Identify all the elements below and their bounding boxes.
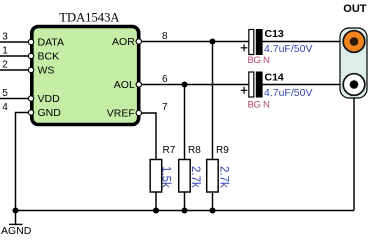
wire AOL to C14: [141, 84, 249, 86]
junction node AOL/R8: [182, 82, 188, 88]
svg-text:R7: R7: [163, 145, 176, 156]
svg-text:AOR: AOR: [112, 36, 135, 48]
svg-text:5: 5: [2, 88, 8, 99]
jack right channel center pin: [350, 37, 359, 46]
svg-text:VREF: VREF: [107, 108, 135, 120]
svg-text:8: 8: [162, 31, 168, 42]
junction node GND/rail: [13, 208, 19, 214]
pin circle AOR: [136, 39, 141, 44]
svg-text:4.7uF/50V: 4.7uF/50V: [264, 43, 312, 55]
capacitor C14 plus plate: [249, 72, 254, 97]
connector J1 RCA jack body: [340, 28, 367, 98]
capacitor C13 plus plate: [249, 30, 254, 55]
wire AGND stub: [15, 211, 17, 225]
jack left channel center pin: [350, 80, 359, 89]
svg-text:2: 2: [2, 60, 8, 71]
svg-text:DATA: DATA: [38, 37, 64, 49]
svg-text:2.7k: 2.7k: [217, 166, 229, 188]
svg-text:7: 7: [162, 102, 168, 113]
wire C14 to jack: [263, 84, 345, 86]
svg-text:AGND: AGND: [1, 225, 32, 236]
svg-text:4.7uF/50V: 4.7uF/50V: [264, 87, 312, 99]
svg-text:2.7k: 2.7k: [189, 166, 201, 188]
wire junction to R8: [184, 85, 186, 160]
capacitor C14 minus plate: [256, 72, 263, 98]
svg-text:GND: GND: [38, 107, 62, 119]
junction node R9/rail: [210, 208, 216, 214]
svg-text:WS: WS: [38, 65, 55, 77]
resistor R7 body: [150, 160, 162, 193]
wire junction to R9: [212, 42, 214, 160]
plus sign C13: [241, 44, 248, 51]
pin circle AOL: [136, 82, 141, 87]
svg-text:C13: C13: [265, 28, 284, 40]
capacitor C13 minus plate: [256, 29, 263, 55]
wire AGND rail: [16, 210, 355, 212]
ground bar AGND: [9, 223, 23, 225]
svg-text:6: 6: [162, 74, 168, 85]
svg-text:3: 3: [2, 32, 8, 43]
svg-text:R9: R9: [216, 145, 229, 156]
plus sign C14: [241, 87, 248, 94]
svg-text:BG N: BG N: [248, 99, 270, 110]
svg-text:1: 1: [2, 46, 8, 57]
pin circle GND: [28, 110, 33, 115]
junction node R7/rail: [153, 208, 159, 214]
svg-text:OUT: OUT: [343, 3, 367, 15]
wire R9 to rail: [212, 192, 214, 211]
svg-text:BG N: BG N: [248, 55, 270, 66]
svg-text:R8: R8: [188, 145, 201, 156]
wire R8 to rail: [184, 192, 186, 211]
junction node AOR/R9: [210, 39, 216, 45]
wire AOR to C13: [141, 41, 249, 43]
svg-text:TDA1543A: TDA1543A: [59, 10, 119, 24]
wire R7 to rail: [155, 192, 157, 211]
svg-text:BCK: BCK: [38, 51, 60, 63]
pin circle WS: [28, 67, 33, 72]
pin circle BCK: [28, 53, 33, 58]
pin circle VREF: [136, 110, 141, 115]
resistor R8 body: [179, 160, 191, 193]
wire VREF to R7: [141, 113, 156, 160]
wire pin3 DATA: [0, 41, 29, 43]
pin circle VDD: [28, 96, 33, 101]
jack left channel outer: [343, 74, 365, 96]
svg-text:1.5k: 1.5k: [159, 166, 171, 188]
wire pin4 GND to AGND rail: [16, 113, 29, 211]
resistor R9 body: [207, 160, 219, 193]
wire C13 to jack: [263, 41, 345, 43]
pin circle DATA: [28, 39, 33, 44]
junction node R8/rail: [182, 208, 188, 214]
svg-text:AOL: AOL: [114, 79, 135, 91]
svg-text:4: 4: [2, 102, 8, 113]
svg-text:C14: C14: [265, 72, 284, 84]
wire pin1 BCK: [0, 55, 29, 57]
jack right channel outer: [343, 31, 365, 53]
wire jack shield to rail: [353, 98, 355, 211]
IC TDA1543A body: [32, 27, 139, 125]
svg-text:VDD: VDD: [38, 93, 61, 105]
wire pin5 VDD: [0, 98, 29, 100]
wire pin2 WS: [0, 69, 29, 71]
